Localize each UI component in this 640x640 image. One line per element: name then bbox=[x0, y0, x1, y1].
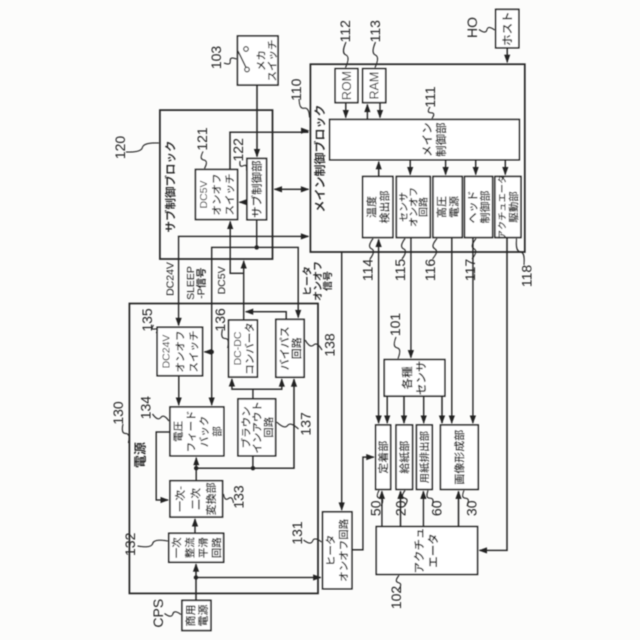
wire: bypass control from 122 junction to 138 right edge bbox=[257, 247, 299, 317]
svg-text:138: 138 bbox=[322, 333, 338, 357]
box 112 ROM bbox=[335, 69, 358, 103]
svg-text:DC24V: DC24V bbox=[161, 335, 173, 369]
wire: sensors 101 to fuser 50 bbox=[386, 396, 388, 423]
wire: sub controller 122 and main block 110 double arrow bbox=[275, 188, 309, 190]
wire: heater circuit 131 to fuser 50 bbox=[352, 457, 374, 550]
wire: voltage feedback 134 loop to converter 133 bbox=[156, 432, 170, 500]
svg-text:50: 50 bbox=[368, 500, 384, 516]
svg-text:131: 131 bbox=[289, 521, 305, 545]
box 133 primary-secondary converter (一次-二次変換部) bbox=[170, 481, 223, 517]
svg-text:117: 117 bbox=[462, 259, 478, 282]
svg-text:116: 116 bbox=[422, 259, 438, 282]
wire: sensors 101 to paper eject 60 bbox=[423, 396, 425, 423]
svg-text:112: 112 bbox=[337, 20, 353, 43]
svg-text:-P: -P bbox=[196, 288, 208, 299]
box 135 DC24V on-off switch bbox=[157, 327, 202, 375]
block 120 sub-control block (サブ制御ブロック) bbox=[160, 110, 273, 259]
box 102 actuator (アクチュエータ) bbox=[376, 527, 477, 575]
box 131 heater on-off circuit (ヒータオンオフ回路) bbox=[323, 512, 352, 589]
wire: HV power 116 to image forming 30 bbox=[451, 238, 453, 424]
svg-text:DC5V: DC5V bbox=[216, 266, 228, 294]
svg-text:133: 133 bbox=[231, 485, 247, 509]
svg-text:ROM: ROM bbox=[340, 71, 354, 100]
wire: SLEEP-P signal net from 122 to 134/135 bbox=[212, 220, 257, 405]
wire: RAM 113 to main controller 111 bbox=[379, 103, 381, 118]
box 136 DC-DC converter (DC-DCコンバータ) bbox=[229, 320, 258, 377]
svg-text:132: 132 bbox=[122, 532, 138, 556]
wire: main controller 111 to RAM 113 bbox=[366, 105, 368, 120]
svg-text:HO: HO bbox=[464, 17, 480, 38]
box 122 sub controller (サブ制御部) bbox=[247, 159, 267, 220]
svg-text:118: 118 bbox=[519, 265, 535, 288]
wire: power bus from junction to bypass 138 and brown-in/out 137 bbox=[196, 379, 294, 468]
wire: brown-in/out 137 to DC-DC 136 and bypass 138 bbox=[232, 379, 253, 399]
svg-text:121: 121 bbox=[194, 127, 210, 151]
wire: DC5V switch 121 to main block 110 bbox=[230, 132, 309, 169]
wire: host to main block 110 bbox=[506, 48, 508, 62]
wire: heater on-off signal from 110 to heater circuit 131 bbox=[341, 252, 343, 510]
svg-text:134: 134 bbox=[138, 396, 154, 420]
svg-text:122: 122 bbox=[230, 138, 246, 162]
box 116 high-voltage power (高圧電源) bbox=[433, 177, 462, 238]
wire: DC24V switch 135 to voltage feedback 134 bbox=[178, 376, 180, 405]
wire: sub controller 122 to DC5V switch 121 bbox=[240, 201, 248, 203]
box 134 voltage feedback (電圧フィードバック部) bbox=[170, 407, 224, 456]
svg-text:RAM: RAM bbox=[368, 72, 382, 100]
svg-text:130: 130 bbox=[110, 401, 126, 425]
wire: sensor on-off 115 to sensors 101 bbox=[410, 238, 412, 358]
wire: main controller 111 to head control 117 bbox=[475, 160, 477, 175]
wire: actuator 102 to fuser 50 bbox=[381, 491, 383, 526]
box 115 sensor on-off circuit (センサオンオフ回路) bbox=[396, 177, 430, 238]
wire: main controller 111 to actuator driver 118 bbox=[504, 160, 506, 175]
wire: ROM 112 to main controller 111 bbox=[345, 103, 347, 118]
svg-text:CPS: CPS bbox=[150, 599, 166, 628]
box 137 brown-in/out circuit (ブラウンインアウト回路) bbox=[238, 399, 276, 456]
svg-text:120: 120 bbox=[112, 136, 128, 160]
block 110 main control block (メイン制御ブロック) bbox=[310, 64, 524, 252]
wire: temperature detector 114 to fuser 50 (bidirectional) bbox=[378, 240, 380, 424]
wire: main controller 111 to HV power 116 bbox=[445, 160, 447, 175]
wire: actuator driver 118 to actuator 102 bbox=[480, 238, 508, 551]
wire: sensors 101 to image forming 30 bbox=[441, 396, 443, 423]
wire: temperature detector 114 to main controller 111 bbox=[378, 162, 380, 177]
box CPS commercial power (商用電源) bbox=[182, 600, 211, 630]
svg-text:60: 60 bbox=[429, 500, 445, 516]
wire: commercial power CPS to rectifier 132 and heater circuit 131 bbox=[195, 564, 197, 600]
wire: main controller 111 to sensor on-off 115 bbox=[409, 160, 411, 175]
svg-text:136: 136 bbox=[212, 308, 228, 332]
wire: actuator 102 to paper eject 60 bbox=[422, 491, 424, 526]
wire: head control 117 to image forming 30 bbox=[472, 238, 474, 424]
wire: bypass 138 join to DC5V net bbox=[246, 312, 287, 320]
box 101 various sensors (各種センサ) bbox=[384, 360, 445, 397]
wire: sensors 101 to paper feed 20 bbox=[403, 396, 405, 423]
svg-text:113: 113 bbox=[367, 20, 383, 43]
svg-text:103: 103 bbox=[208, 46, 224, 70]
box 118 actuator driver (アクチュエータ駆動部) bbox=[495, 177, 521, 238]
svg-text:DC-DC: DC-DC bbox=[232, 331, 244, 365]
wire: actuator 102 to image forming 30 bbox=[458, 491, 460, 526]
block 130 power supply (電源) bbox=[129, 304, 318, 594]
box 138 bypass circuit (バイパス回路) bbox=[276, 319, 304, 377]
box 114 temperature detector (温度検出部) bbox=[363, 177, 393, 238]
svg-text:115: 115 bbox=[392, 259, 408, 282]
label heater on-off signal net name (ヒータオンオフ信号) bbox=[303, 287, 311, 294]
svg-text:30: 30 bbox=[464, 500, 480, 516]
box 30 image forming (画像形成部) bbox=[441, 425, 479, 489]
svg-text:114: 114 bbox=[360, 259, 376, 282]
box 117 head control (ヘッド制御部) bbox=[465, 177, 493, 238]
wire: converter 133 to voltage feedback 134 with power bus junction bbox=[195, 458, 197, 481]
wire: DC24V net between main block 110 and DC24V switch 135 bbox=[179, 236, 309, 325]
svg-text:DC24V: DC24V bbox=[165, 262, 177, 296]
svg-text:101: 101 bbox=[387, 313, 403, 337]
box 113 RAM bbox=[363, 69, 386, 103]
box 103 mechanical switch (メカスイッチ) bbox=[238, 36, 279, 85]
box host (ホスト) bbox=[496, 9, 519, 47]
svg-text:111: 111 bbox=[422, 86, 438, 107]
svg-text:110: 110 bbox=[288, 78, 304, 101]
box 50 fuser (定着部) bbox=[376, 425, 391, 489]
switch symbol in 103 bbox=[245, 67, 250, 72]
svg-text:137: 137 bbox=[297, 412, 313, 436]
wire: rectifier 132 to converter 133 bbox=[194, 519, 196, 533]
svg-text:DC5V: DC5V bbox=[198, 180, 210, 208]
box 111 main controller (メイン制御部) bbox=[330, 120, 520, 160]
wire: SLEEP-P branch into 135 bottom bbox=[205, 351, 212, 353]
box 20 paper feed (給紙部) bbox=[396, 425, 412, 489]
wire: actuator 102 to paper feed 20 bbox=[400, 491, 402, 526]
wire: DC5V net from DC-DC converter 136 to block 120 and switch 121 bbox=[243, 261, 245, 320]
box 121 DC5V on-off switch bbox=[196, 170, 238, 220]
box 60 paper eject (用紙排出部) bbox=[417, 425, 433, 489]
svg-text:102: 102 bbox=[388, 586, 404, 610]
box 132 primary rectifier smoother (一次整流平滑回路) bbox=[169, 533, 224, 562]
wire: switch 103 to sub controller 122 bbox=[256, 85, 258, 157]
